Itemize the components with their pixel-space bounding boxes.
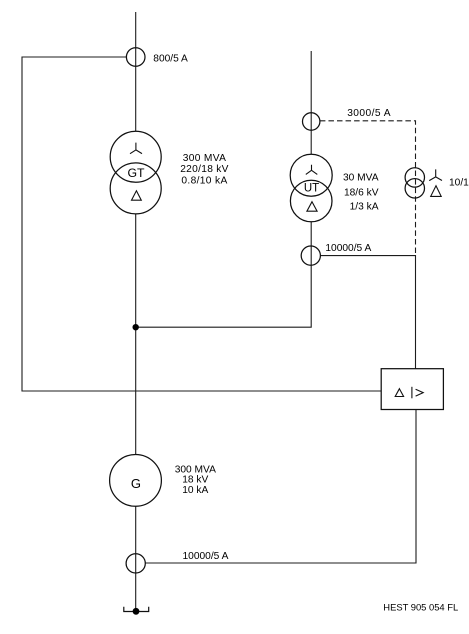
- svg-text:800/5 A: 800/5 A: [153, 53, 188, 64]
- svg-text:10000/5 A: 10000/5 A: [325, 243, 371, 254]
- svg-text:0.8/10 kA: 0.8/10 kA: [181, 176, 227, 187]
- svg-text:10000/5 A: 10000/5 A: [183, 551, 229, 562]
- svg-text:300 MVA: 300 MVA: [183, 153, 227, 164]
- svg-text:30 MVA: 30 MVA: [343, 173, 379, 184]
- svg-text:UT: UT: [304, 183, 319, 195]
- svg-text:1/3 kA: 1/3 kA: [350, 201, 379, 212]
- svg-text:18/6 kV: 18/6 kV: [344, 187, 379, 198]
- svg-text:3000/5 A: 3000/5 A: [347, 108, 391, 119]
- svg-text:GT: GT: [127, 166, 145, 180]
- svg-text:10/1: 10/1: [449, 178, 469, 189]
- svg-text:HEST 905 054 FL: HEST 905 054 FL: [383, 602, 458, 613]
- svg-text:G: G: [131, 476, 141, 491]
- svg-text:10 kA: 10 kA: [182, 485, 208, 496]
- svg-text:18 kV: 18 kV: [182, 474, 208, 485]
- svg-text:220/18 kV: 220/18 kV: [180, 164, 229, 175]
